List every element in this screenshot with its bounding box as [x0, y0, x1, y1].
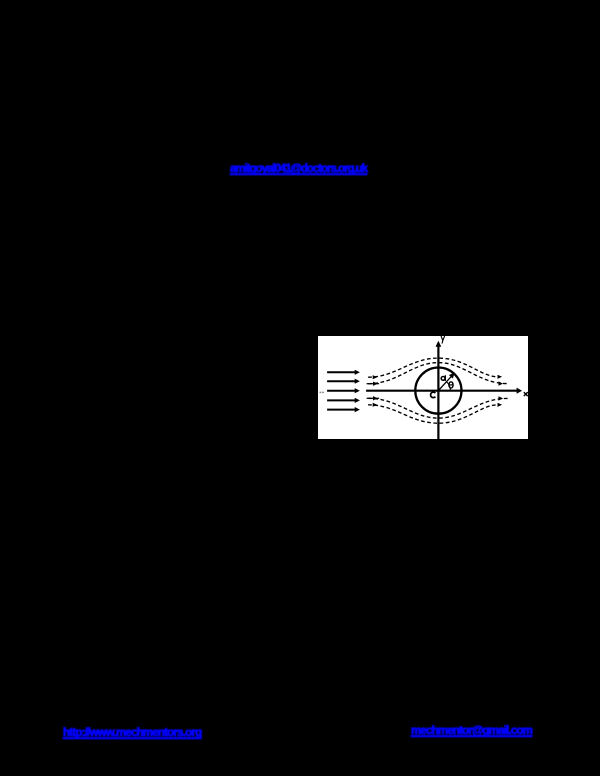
figure: uniform flow past a circular cylinder — [318, 336, 528, 439]
author email link (top, centered) — [230, 163, 367, 175]
centre label C — [430, 392, 435, 397]
free-stream flow arrow 3 — [327, 388, 360, 393]
x axis label — [524, 392, 527, 395]
cylinder circle — [415, 367, 461, 413]
angle label theta — [449, 382, 454, 388]
y axis label — [441, 336, 444, 343]
streamline top inner — [366, 362, 507, 385]
free-stream flow arrow 1 — [327, 369, 360, 374]
website link (bottom left) — [63, 727, 201, 739]
free-stream flow arrow 2 — [327, 378, 360, 383]
angle arc theta — [447, 382, 451, 391]
y axis — [435, 341, 441, 439]
x axis — [366, 387, 522, 393]
email link (bottom right) — [411, 725, 532, 737]
free-stream flow arrow 4 — [327, 398, 360, 403]
radius line a — [438, 372, 454, 390]
streamline bottom outer — [368, 402, 502, 422]
small grey tick marks at left edge — [319, 391, 323, 392]
free-stream flow arrow 5 — [327, 407, 360, 412]
figure white background panel — [318, 336, 528, 439]
radius label a — [441, 376, 445, 381]
streamline bottom inner — [366, 396, 507, 418]
streamline top outer — [368, 358, 502, 379]
